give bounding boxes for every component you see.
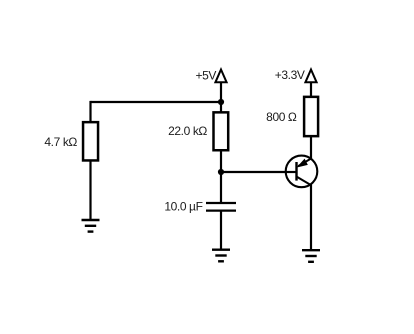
wire R3 bottom to transistor emitter — [310, 137, 312, 159]
svg-text:4.7 kΩ: 4.7 kΩ — [44, 135, 77, 149]
ground (below capacitor) — [212, 250, 230, 262]
wire top horizontal from R1 to +5V node — [91, 101, 222, 103]
wire capacitor bottom down — [220, 211, 222, 250]
wire node B down to capacitor — [220, 172, 222, 203]
node junction dot at +5V tap — [218, 99, 224, 105]
capacitor C1 10.0 uF — [206, 203, 236, 211]
transistor Q1 base bar — [295, 162, 297, 181]
svg-text:+3.3V: +3.3V — [275, 68, 305, 82]
wire +3.3V down to R3 — [310, 82, 312, 96]
power +3.3V symbol — [305, 70, 316, 83]
resistor R1 4.7 kOhm — [83, 122, 98, 160]
node junction dot B — [218, 169, 224, 175]
svg-text:800 Ω: 800 Ω — [266, 110, 297, 124]
wire R2 bottom to node B — [220, 151, 222, 173]
resistor R2 22.0 kOhm — [214, 112, 229, 150]
svg-text:+5V: +5V — [196, 69, 217, 83]
wire collector down to ground — [310, 185, 312, 251]
resistor R3 800 Ohm — [304, 97, 318, 136]
svg-text:10.0 µF: 10.0 µF — [164, 200, 202, 214]
power +5V symbol — [215, 70, 226, 83]
transistor Q1 PNP body — [286, 156, 318, 188]
wire vertical corner down to R1 top — [89, 101, 91, 122]
transistor Q1 emitter line — [298, 158, 311, 166]
wire base horizontal to transistor — [221, 171, 297, 173]
wire R1 bottom to ground — [89, 161, 91, 220]
wire +5V down to node — [220, 82, 222, 112]
transistor Q1 collector line — [297, 177, 311, 185]
ground (below transistor) — [302, 250, 320, 262]
ground (left) — [82, 220, 100, 232]
transistor Q1 emitter arrow — [298, 160, 307, 167]
transistor Q1 base wire inside — [285, 171, 297, 173]
svg-text:22.0 kΩ: 22.0 kΩ — [168, 124, 207, 138]
